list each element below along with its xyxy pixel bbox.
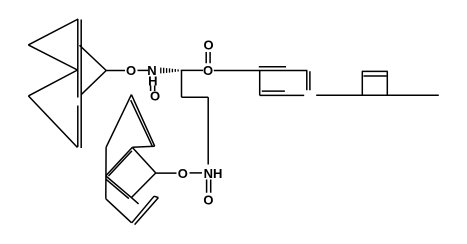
fluorenyl B left vertical [105, 147, 107, 199]
fluorenyl B apex right edge double bond [131, 95, 155, 147]
chain stereocenter down [181, 70, 183, 97]
bond O1 to N1 [138, 69, 149, 71]
cyclobutene square left edge [361, 71, 363, 95]
fluorenyl B bond C9 down-left [131, 173, 156, 198]
svg-text:O: O [178, 166, 188, 181]
fluorenyl B bond to C9 [132, 147, 155, 173]
bond O4 to N2 [190, 172, 203, 174]
fluorenyl B bottom right double bond [132, 196, 159, 224]
svg-text:O: O [203, 38, 213, 53]
cyclobutene square top inner double bond [364, 75, 387, 77]
svg-text:H: H [148, 74, 157, 89]
fluorenyl A lower triangle top edge [28, 70, 77, 96]
phenyl ring right edge double bond [307, 71, 310, 91]
bond O2 to phenyl [214, 70, 307, 72]
svg-text:NH: NH [204, 166, 223, 181]
fluorenyl A C9 triangle lower bond [81, 71, 106, 95]
fluorenyl B double bond lower-left [106, 176, 131, 199]
fluorenyl B horizontal bond [132, 146, 154, 147]
fluorenyl A ring double bond left line [77, 19, 79, 147]
chain horizontal [182, 96, 209, 98]
phenyl ring top inner double bond [259, 66, 286, 68]
bond stereocenter to O2 [181, 69, 203, 71]
fluorenyl B bottom left edge [106, 199, 132, 223]
chain down to N2 [207, 97, 209, 164]
cyclobutene square top edge [362, 70, 388, 72]
fluorenyl A upper triangle bottom edge [28, 45, 77, 70]
carbonyl C=O under N2 [207, 180, 211, 193]
fluorenyl A upper triangle top edge [28, 19, 78, 45]
fluorenyl B short bond stub [131, 197, 139, 204]
phenyl ring bottom inner double bond [262, 90, 285, 92]
cyclobutene square right edge [386, 71, 388, 95]
hashed wedge bond N1 to stereocenter [161, 68, 178, 74]
fluorenyl A ring double bond right line [80, 20, 82, 149]
bond C9 to O1 [106, 70, 125, 72]
svg-text:O: O [126, 63, 136, 78]
fluorenyl B double bond down-left [106, 147, 132, 176]
alkyl baseline right [316, 94, 439, 96]
fluorenyl A C9 triangle upper bond [80, 45, 107, 70]
ester C=O double bond to O3 [206, 52, 210, 63]
phenyl ring left edge [259, 71, 261, 96]
phenyl ring bottom edge [260, 94, 305, 96]
bond fluorenyl B to O4 [156, 172, 177, 174]
svg-text:O: O [203, 192, 213, 207]
carbonyl C=O under N1 [151, 86, 155, 92]
svg-text:O: O [203, 63, 213, 78]
svg-text:O: O [150, 89, 160, 104]
fluorenyl B apex left edge [106, 95, 131, 148]
fluorenyl A lower triangle bottom edge [28, 96, 77, 148]
